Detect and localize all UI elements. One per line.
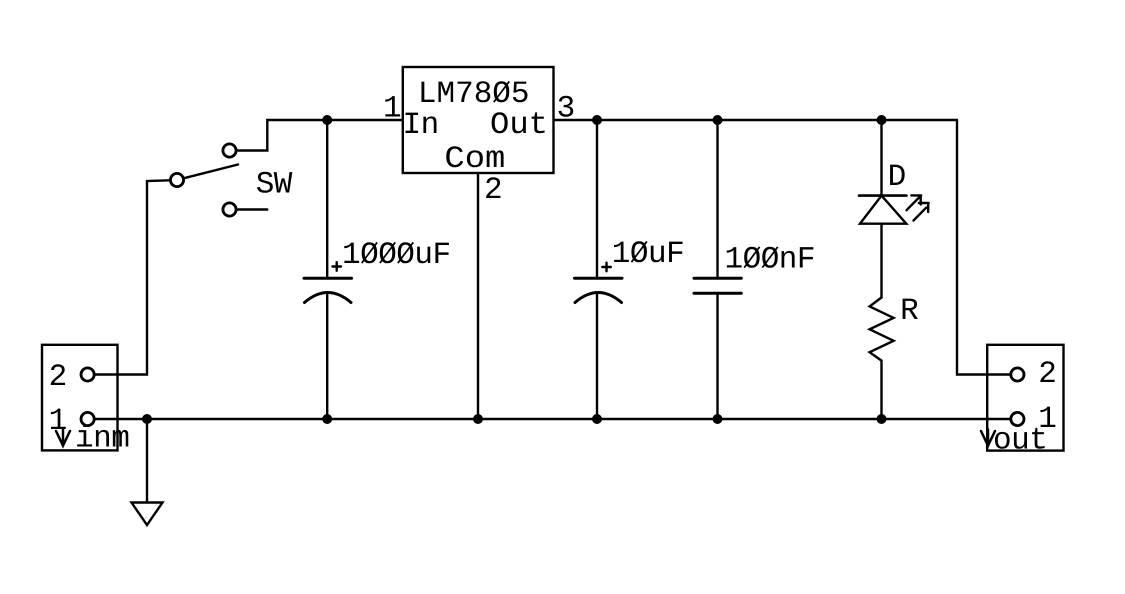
capacitor C2 10uF (575, 120, 623, 419)
switch SW (170, 144, 267, 216)
svg-text:1ØØnF: 1ØØnF (725, 243, 816, 278)
connector J2 Vout body (987, 345, 1063, 451)
connector J1 Vinm body (42, 345, 118, 451)
connector J2 pin 2 circle (1011, 368, 1024, 381)
svg-text:1ØØØuF: 1ØØØuF (342, 238, 451, 273)
connector J1 pin 1 circle (81, 412, 94, 425)
svg-text:1: 1 (383, 92, 401, 127)
ground symbol (132, 419, 163, 525)
net arrow Vinm (56, 430, 70, 446)
capacitor C3 100nF (694, 120, 741, 419)
svg-text:R: R (900, 294, 918, 329)
svg-text:out: out (993, 424, 1047, 459)
svg-text:Out: Out (490, 108, 548, 143)
svg-text:2: 2 (484, 173, 502, 208)
svg-text:3: 3 (557, 92, 575, 127)
svg-text:D: D (888, 160, 906, 195)
LED D (859, 120, 929, 298)
svg-text:2: 2 (1038, 357, 1056, 392)
wire right riser to output connector pin 2 (957, 120, 1010, 375)
regulator U1 LM7805 body (403, 67, 554, 173)
capacitor C1 1000uF (304, 120, 352, 419)
net arrow Vout (981, 430, 995, 446)
wire input pin 2 to switch (95, 180, 170, 374)
wire top bus right segment (554, 119, 958, 121)
wire bottom ground bus (95, 418, 1010, 420)
svg-text:1ØuF: 1ØuF (612, 237, 684, 272)
junction node dots (142, 115, 887, 424)
svg-text:LM78Ø5: LM78Ø5 (418, 77, 530, 112)
svg-text:inm: inm (75, 422, 129, 457)
svg-text:Com: Com (444, 142, 505, 177)
svg-text:In: In (403, 108, 439, 143)
wire U1 Com pin 2 to ground bus (477, 173, 479, 419)
wire top bus left segment (237, 120, 403, 151)
svg-text:SW: SW (256, 168, 293, 203)
connector J1 pin 2 circle (81, 368, 94, 381)
resistor R (870, 298, 894, 420)
svg-text:2: 2 (49, 360, 67, 395)
connector J2 pin 1 circle (1011, 412, 1024, 425)
svg-text:1: 1 (49, 404, 67, 439)
